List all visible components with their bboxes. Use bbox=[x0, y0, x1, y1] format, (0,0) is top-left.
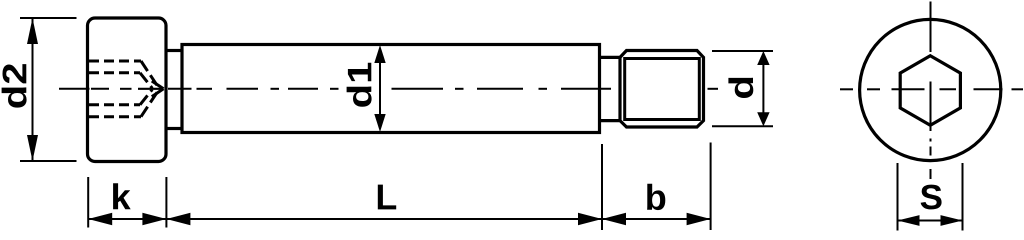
dimension k arrow right bbox=[142, 213, 166, 225]
dimension S arrow left bbox=[898, 215, 920, 226]
label b bbox=[647, 184, 665, 210]
neck left top line bbox=[166, 49, 182, 52]
hex socket hidden line inner top horizontal bbox=[89, 71, 140, 74]
dimension b arrow right bbox=[687, 213, 711, 225]
hex socket hidden line outer bottom horizontal bbox=[89, 115, 141, 118]
hex socket hidden line outer top horizontal bbox=[89, 60, 141, 63]
socket axis arrow barb top bbox=[152, 81, 164, 89]
dimension d2 arrow down bbox=[27, 135, 38, 161]
dimension b extension line right bbox=[710, 143, 712, 231]
thread relief neck top line bbox=[600, 56, 621, 59]
dimension d line bbox=[762, 55, 764, 122]
end view vertical centerline bbox=[930, 2, 932, 180]
label k bbox=[113, 183, 131, 209]
dimension d2 extension line bottom bbox=[20, 160, 77, 162]
dimension S extension line right bbox=[962, 163, 964, 231]
dimension L arrow right bbox=[578, 213, 602, 225]
hex socket hidden line inner bottom cone bbox=[140, 89, 152, 104]
dimension d extension line bottom bbox=[712, 125, 773, 127]
neck left bottom line bbox=[166, 127, 182, 130]
socket axis arrow barb bottom bbox=[152, 89, 164, 97]
dimension S arrow right bbox=[941, 215, 963, 226]
hex socket hidden line outer bottom cone bbox=[141, 89, 159, 116]
hex socket hidden line outer top cone bbox=[141, 61, 159, 88]
dimension d1 arrow up bbox=[374, 45, 385, 63]
label S bbox=[921, 185, 942, 210]
dimension k extension line left bbox=[87, 177, 89, 228]
hex socket hidden line inner top cone bbox=[140, 73, 152, 89]
thread relief neck bottom line bbox=[600, 119, 621, 122]
dimension d2 line bbox=[32, 19, 34, 160]
hex socket hidden line inner bottom horizontal bbox=[89, 103, 140, 106]
dimension k arrow left bbox=[88, 213, 112, 225]
dimension b arrow left bbox=[602, 213, 626, 225]
dimension S extension line left bbox=[897, 163, 899, 231]
label d1 bbox=[347, 63, 372, 107]
thread outer outline with chamfers bbox=[620, 51, 704, 128]
dimension line k L b bbox=[88, 218, 710, 220]
dimension S line bbox=[898, 220, 963, 222]
dimension L arrow left bbox=[166, 213, 190, 225]
dimension d extension line top bbox=[712, 50, 773, 52]
centerline main axis bbox=[59, 88, 718, 90]
shoulder shaft outline bbox=[182, 45, 600, 133]
hex socket hexagon bbox=[900, 56, 960, 126]
dimension d2 extension line top bbox=[20, 17, 77, 19]
dimension d arrow up bbox=[757, 51, 769, 65]
dimension d2 arrow up bbox=[27, 18, 38, 44]
end view horizontal centerline bbox=[840, 88, 1023, 90]
end view circle bbox=[860, 19, 1001, 160]
dimension d arrow down bbox=[757, 112, 769, 126]
dimension k extension line right bbox=[165, 177, 167, 228]
thread minor diameter rectangle bbox=[625, 59, 700, 120]
label L bbox=[378, 185, 396, 210]
dimension d1 arrow down bbox=[374, 114, 385, 132]
dimension d1 line bbox=[379, 48, 381, 129]
screw head outline bbox=[88, 18, 167, 162]
label d bbox=[728, 78, 753, 98]
socket axis arrow shaft bbox=[138, 88, 163, 90]
dimension L extension line right bbox=[601, 144, 603, 230]
label d2 bbox=[2, 64, 27, 108]
